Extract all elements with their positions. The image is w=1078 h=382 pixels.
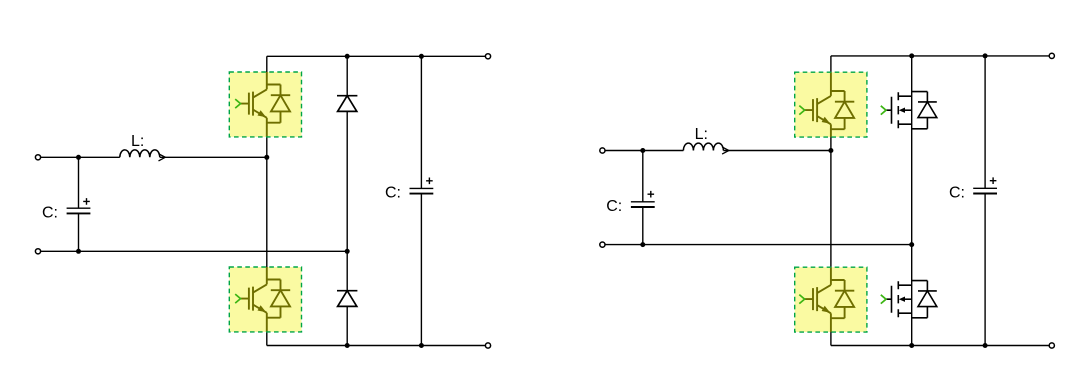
dashed border upper IGBT box (left circuit) [229, 72, 301, 137]
junction output cap bottom (right circuit) [983, 343, 988, 348]
terminal output bottom (right circuit) [1049, 343, 1054, 348]
wire diode leg middle (left circuit) [346, 111, 348, 290]
svg-text:C:: C: [385, 185, 401, 202]
wire input cap bottom lead (left circuit) [78, 213, 80, 251]
dashed border lower IGBT box (right circuit) [795, 267, 867, 332]
svg-text:L:: L: [131, 133, 144, 150]
wire top rail (left circuit) [267, 55, 485, 57]
MOSFET lower with body diode (right circuit) [881, 281, 937, 318]
wire IGBT leg segments (left circuit) [266, 56, 268, 345]
wire diode leg bottom (left circuit) [346, 306, 348, 345]
wire bottom rail (left circuit) [267, 345, 485, 347]
IGBT lower with antiparallel diode (left circuit) [235, 280, 290, 318]
IGBT lower with antiparallel diode (right circuit) [799, 280, 854, 318]
wire top rail (right circuit) [831, 55, 1049, 57]
svg-text:C:: C: [42, 204, 58, 221]
highlight box lower IGBT (left circuit) [229, 267, 301, 332]
diode lower (left circuit) [337, 291, 357, 307]
junction input cap top (left circuit) [76, 155, 81, 160]
junction diode leg bottom (left circuit) [345, 343, 350, 348]
junction MOSFET leg top (right circuit) [909, 53, 914, 58]
junction diode leg midpoint (left circuit) [345, 249, 350, 254]
wire input cap top lead (left circuit) [78, 157, 80, 208]
wire inductor to half-bridge node (right circuit) [723, 150, 831, 152]
terminal input bottom (left circuit) [35, 249, 40, 254]
highlight box lower IGBT (right circuit) [795, 267, 867, 332]
wire bottom rail (right circuit) [831, 345, 1049, 347]
MOSFET upper with body diode (right circuit) [881, 92, 937, 129]
junction half-bridge midpoint (left circuit) [264, 155, 269, 160]
dashed border upper IGBT box (right circuit) [795, 72, 867, 137]
capacitor C: output (left circuit) [410, 178, 434, 194]
terminal input bottom (right circuit) [600, 242, 605, 247]
wire output cap bottom lead (left circuit) [420, 194, 422, 346]
inductor L: (right circuit) [683, 143, 729, 154]
wire input bottom rail (right circuit) [605, 244, 912, 246]
junction MOSFET leg bottom (right circuit) [909, 343, 914, 348]
capacitor C: input (right circuit) [631, 191, 655, 207]
junction input cap top (right circuit) [640, 148, 645, 153]
capacitor C: output (right circuit) [973, 177, 997, 193]
junction input cap bottom (right circuit) [640, 242, 645, 247]
svg-text:C:: C: [606, 198, 622, 215]
highlight box upper IGBT (left circuit) [229, 72, 301, 137]
IGBT upper with antiparallel diode (right circuit) [799, 91, 854, 129]
capacitor C: input (left circuit) [67, 198, 91, 213]
wire input top (left circuit) [41, 156, 120, 158]
wire inductor to half-bridge node (left circuit) [160, 156, 267, 158]
terminal output bottom (left circuit) [485, 343, 490, 348]
terminal input top (left circuit) [35, 155, 40, 160]
terminal input top (right circuit) [600, 148, 605, 153]
junction input cap bottom (left circuit) [76, 249, 81, 254]
terminal output top (left circuit) [485, 54, 490, 59]
wire output cap bottom lead (right circuit) [984, 194, 986, 346]
diode upper (left circuit) [337, 96, 357, 112]
wire output cap top lead (left circuit) [420, 56, 422, 188]
wire diode leg top (left circuit) [346, 56, 348, 95]
IGBT upper with antiparallel diode (left circuit) [235, 85, 290, 123]
wire input cap top lead (right circuit) [642, 151, 644, 202]
svg-text:C:: C: [949, 185, 965, 202]
junction half-bridge midpoint (right circuit) [828, 148, 833, 153]
junction output cap top (right circuit) [983, 53, 988, 58]
junction diode leg top (left circuit) [345, 54, 350, 59]
terminal output top (right circuit) [1049, 53, 1054, 58]
wire input bottom rail (left circuit) [41, 250, 348, 252]
wire input top (right circuit) [605, 150, 683, 152]
inductor L: (left circuit) [120, 150, 166, 161]
wire MOSFET leg (right circuit) [911, 56, 913, 346]
svg-text:L:: L: [695, 126, 708, 143]
junction output cap top (left circuit) [419, 54, 424, 59]
junction output cap bottom (left circuit) [419, 343, 424, 348]
highlight box upper IGBT (right circuit) [795, 72, 867, 137]
wire input cap bottom lead (right circuit) [642, 207, 644, 245]
dashed border lower IGBT box (left circuit) [229, 267, 301, 332]
wire output cap top lead (right circuit) [984, 56, 986, 188]
wire IGBT leg segments (right circuit) [830, 56, 832, 346]
junction MOSFET leg midpoint (right circuit) [909, 242, 914, 247]
